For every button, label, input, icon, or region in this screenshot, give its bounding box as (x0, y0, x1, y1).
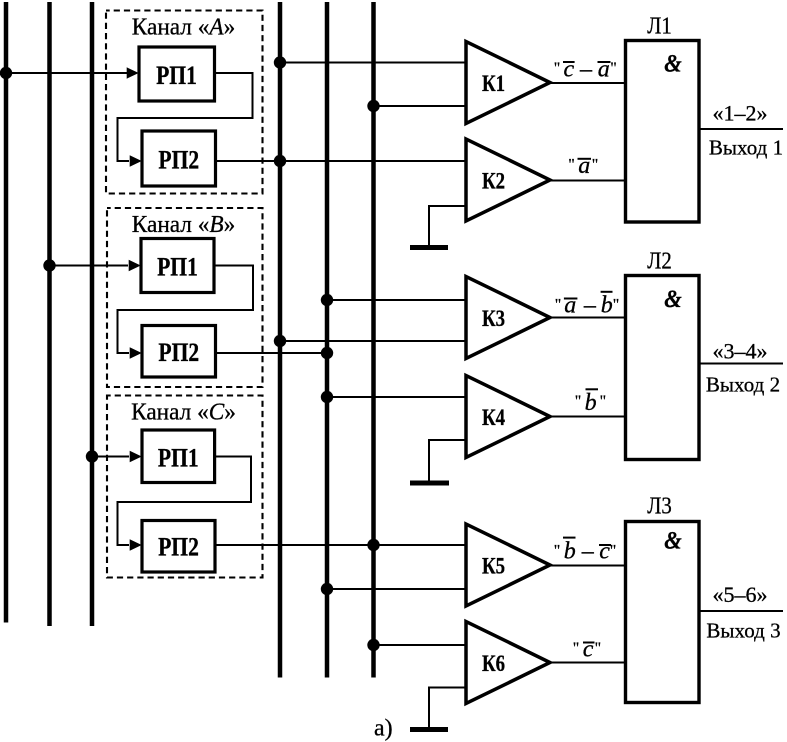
svg-text:a: a (578, 153, 590, 179)
svg-text:Канал «В»: Канал «В» (132, 212, 235, 238)
svg-text:Л2: Л2 (647, 247, 672, 274)
svg-text:К2: К2 (482, 168, 505, 194)
svg-text:&: & (664, 50, 682, 77)
svg-text:": " (595, 640, 602, 657)
svg-text:К5: К5 (482, 553, 505, 579)
svg-text:«1–2»: «1–2» (713, 101, 768, 126)
svg-text:": " (568, 156, 575, 173)
svg-text:РП2: РП2 (158, 339, 199, 367)
svg-text:b: b (601, 293, 613, 319)
svg-text:Л1: Л1 (647, 12, 672, 39)
svg-text:c: c (599, 538, 610, 564)
svg-text:К6: К6 (482, 650, 505, 676)
svg-text:а): а) (374, 716, 393, 742)
svg-text:Л3: Л3 (647, 492, 672, 519)
svg-text:РП1: РП1 (158, 445, 199, 473)
svg-text:«3–4»: «3–4» (713, 339, 768, 364)
svg-text:&: & (664, 527, 682, 554)
svg-text:РП2: РП2 (158, 147, 199, 175)
svg-text:c: c (583, 637, 594, 663)
svg-text:": " (613, 296, 620, 313)
svg-text:Выход 1: Выход 1 (709, 136, 783, 160)
svg-text:c: c (564, 56, 575, 82)
svg-text:РП1: РП1 (157, 254, 198, 282)
svg-text:«5–6»: «5–6» (713, 582, 768, 607)
svg-text:&: & (664, 286, 682, 313)
svg-text:–: – (579, 56, 593, 82)
svg-text:Выход 2: Выход 2 (706, 373, 780, 397)
svg-text:Выход 3: Выход 3 (706, 619, 780, 643)
svg-text:": " (554, 60, 561, 77)
svg-text:a: a (598, 56, 610, 82)
svg-text:РП2: РП2 (158, 534, 199, 562)
svg-text:К3: К3 (482, 305, 505, 331)
svg-text:": " (555, 296, 562, 313)
svg-text:": " (573, 640, 580, 657)
svg-text:b: b (564, 538, 576, 564)
svg-text:Канал «А»: Канал «А» (132, 14, 235, 40)
svg-text:a: a (564, 293, 576, 319)
svg-text:Канал «С»: Канал «С» (131, 399, 236, 425)
svg-text:": " (610, 60, 617, 77)
svg-text:": " (554, 543, 561, 560)
svg-text:РП1: РП1 (156, 62, 197, 90)
svg-text:–: – (581, 538, 595, 564)
svg-text:К1: К1 (482, 70, 505, 96)
svg-text:К4: К4 (482, 404, 506, 430)
svg-text:–: – (583, 293, 597, 319)
svg-text:": " (600, 393, 607, 410)
svg-text:": " (592, 156, 599, 173)
svg-text:": " (575, 393, 582, 410)
svg-text:b: b (585, 390, 597, 416)
